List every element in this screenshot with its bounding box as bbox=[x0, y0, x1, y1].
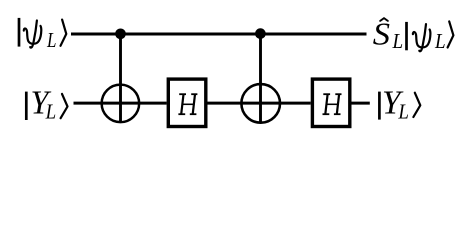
svg-text:L: L bbox=[434, 30, 446, 53]
CNOT 2 target circle (XOR on bottom wire) bbox=[241, 84, 280, 123]
CNOT 1 target circle (XOR on bottom wire) bbox=[102, 85, 139, 123]
svg-text:L: L bbox=[397, 101, 408, 124]
CNOT 1 vertical wire bbox=[119, 34, 122, 122]
ket label |Y_L> (bottom-right output state) bbox=[379, 84, 420, 124]
svg-text:L: L bbox=[45, 101, 56, 124]
bottom qubit wire segment 2 (H1 to H2) bbox=[208, 102, 311, 105]
ket label |Y_L> (bottom-left input state) bbox=[26, 84, 67, 124]
bottom qubit wire segment 3 (H2 to right) bbox=[352, 102, 370, 105]
Hadamard gate H2 letter bbox=[323, 94, 342, 114]
ket label |psi_L> (top-left input state) bbox=[19, 18, 66, 52]
bottom qubit wire segment 1 (left to H1) bbox=[74, 102, 167, 105]
svg-text:L: L bbox=[391, 30, 403, 53]
Hadamard gate H2 box bbox=[312, 79, 349, 126]
CNOT 1 control dot (on top wire) bbox=[115, 28, 126, 39]
CNOT 2 control dot (on top wire) bbox=[255, 28, 266, 39]
CNOT 2 vertical wire bbox=[259, 34, 262, 122]
top qubit wire bbox=[71, 33, 367, 36]
Hadamard gate H1 box bbox=[168, 79, 206, 126]
Hadamard gate H1 letter bbox=[178, 94, 197, 114]
output label S-hat_L |psi_L> (top-right) bbox=[373, 17, 454, 54]
svg-text:L: L bbox=[46, 29, 56, 52]
svg-text:S: S bbox=[373, 17, 391, 53]
